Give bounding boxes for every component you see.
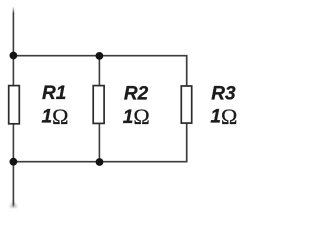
svg-text:R3: R3 (211, 84, 236, 105)
junction: top bus / R2 branch (96, 52, 104, 60)
resistor R3 (181, 86, 191, 123)
svg-text:1Ω: 1Ω (123, 104, 150, 129)
wire: left vertical rail (top feed) (13, 7, 15, 56)
wire: R3 top lead (corner down from top bus) (185, 56, 188, 87)
wire: R2 bottom lead (98, 123, 100, 162)
resistor R2 (93, 86, 104, 124)
junction: top bus / R1 branch (10, 52, 18, 60)
junction: bottom bus / R1 branch (10, 158, 18, 166)
wire: R1 top lead (12, 56, 14, 87)
wire: bottom horizontal bus (13, 161, 186, 163)
resistor R1 (9, 86, 20, 124)
svg-text:R1: R1 (42, 83, 66, 104)
wire: R3 bottom lead (corner up from bottom bus) (185, 123, 188, 162)
wire: left vertical rail (bottom feed) (9, 162, 17, 208)
svg-text:1Ω: 1Ω (210, 104, 237, 129)
wire: top horizontal bus (13, 55, 186, 57)
wire: R2 top lead (98, 56, 100, 86)
svg-text:R2: R2 (124, 84, 149, 105)
svg-text:1Ω: 1Ω (42, 104, 69, 129)
junction: bottom bus / R2 branch (96, 158, 104, 166)
wire: R1 bottom lead (12, 124, 14, 162)
